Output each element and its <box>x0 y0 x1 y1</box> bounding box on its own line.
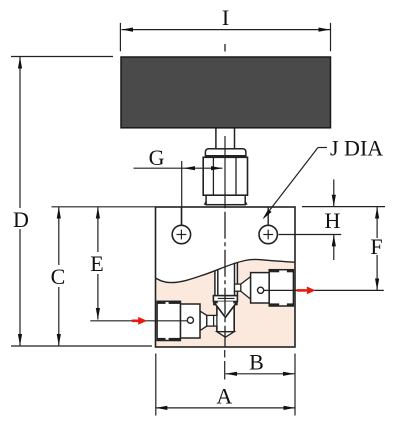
needle cone <box>215 303 236 317</box>
dimension B centerline tick <box>224 350 226 358</box>
left mounting hole drill line <box>180 207 182 225</box>
dimension H bottom arrow <box>333 235 335 260</box>
dimension G line <box>134 167 223 169</box>
red flow arrow left (inlet) <box>132 319 140 322</box>
dimension I arrow right <box>319 28 331 32</box>
dimension D arrow top <box>18 57 22 69</box>
centerline (dash-dot) <box>224 44 226 52</box>
stem bore outer left wall <box>214 271 216 296</box>
left port threaded section <box>157 301 180 340</box>
bonnet skirt <box>206 195 245 205</box>
handle (T-bar) <box>121 57 331 128</box>
dimension I extension line right <box>330 23 332 51</box>
svg-text:E: E <box>90 251 103 276</box>
dimension B arrow left <box>226 372 238 376</box>
body-bottom extension line left (for D and C) <box>11 345 152 347</box>
left port channel step line <box>213 315 215 326</box>
needle shoulder band <box>213 296 237 302</box>
dimension C arrow bottom <box>57 334 61 346</box>
svg-text:H: H <box>325 208 341 233</box>
svg-text:I: I <box>222 5 229 30</box>
svg-text:J DIA: J DIA <box>330 136 383 161</box>
dimension B line <box>226 373 295 375</box>
dimension D line <box>19 57 21 208</box>
A left extension line <box>155 354 157 416</box>
A/B right extension line <box>294 354 296 416</box>
svg-text:A: A <box>216 384 232 409</box>
dimension F arrow top <box>375 207 379 219</box>
dimension E line <box>97 207 99 252</box>
dimension E arrow top <box>96 207 100 219</box>
band corner blob left <box>213 302 217 305</box>
centerline through stem and bonnet <box>224 136 226 207</box>
right port axis line <box>258 289 384 291</box>
red flow arrow right (outlet) <box>297 289 307 292</box>
J DIA leader line <box>318 147 327 149</box>
dimension C line <box>58 207 60 265</box>
left port channel <box>207 315 217 326</box>
dimension B arrow right <box>283 372 295 376</box>
seat walls white block <box>217 302 234 332</box>
seat left wall (broken at inlet channel) <box>216 302 218 316</box>
dimension G arrow right <box>211 166 223 170</box>
hole-axis extension line right (for H) <box>279 234 342 236</box>
left port thread bars top <box>158 301 166 304</box>
right port center circle <box>258 287 264 293</box>
right port channel top line <box>235 283 241 285</box>
skirt left flare <box>204 200 206 205</box>
left port outlet flare <box>200 311 207 331</box>
bonnet hex nut <box>203 157 247 195</box>
right port thread bars bottom <box>269 303 279 306</box>
dimension I extension line left <box>119 23 121 51</box>
seat bottom line <box>217 331 234 333</box>
dimension G arrow left <box>184 166 196 170</box>
dimension A arrow right <box>284 406 296 410</box>
body-top extension line left (for C and E) <box>52 206 156 208</box>
dimension I arrow left <box>122 28 134 32</box>
left mounting hole <box>172 225 190 243</box>
dimension F arrow bottom <box>375 279 379 291</box>
stem right wall <box>234 263 236 296</box>
hex flat line right <box>235 157 237 195</box>
dimension C arrow top <box>57 207 61 219</box>
section break wavy line <box>156 259 296 282</box>
body-top extension line right (for H and F) <box>302 206 385 208</box>
stem <box>216 128 235 149</box>
svg-text:G: G <box>149 145 165 170</box>
svg-text:F: F <box>370 234 382 259</box>
right mounting hole <box>259 225 277 243</box>
right port inlet flare <box>241 277 251 300</box>
left port thread bars bottom <box>158 338 166 341</box>
stem bore white channel <box>215 259 238 296</box>
left port axis line <box>90 320 193 322</box>
band corner blob right <box>233 302 237 305</box>
dimension A line <box>156 407 295 409</box>
right port thread bars top <box>269 270 279 273</box>
dimension G extension tick <box>181 161 183 225</box>
right port bore <box>251 273 270 303</box>
handle-top extension line (for D) <box>11 56 113 58</box>
dimension H top arrow <box>333 179 335 206</box>
right port channel bottom line <box>235 290 241 292</box>
stem left wall <box>217 269 219 295</box>
right mounting hole drill line <box>267 207 269 225</box>
J DIA leader arrowhead <box>263 209 272 219</box>
skirt right flare <box>245 200 247 205</box>
dimension D arrow bottom <box>18 334 22 346</box>
valve body outline <box>156 207 296 347</box>
drill point below seat <box>217 332 234 338</box>
shoulder band mid line <box>218 297 235 299</box>
right port connecting channel <box>235 284 241 291</box>
dimension F line <box>376 207 378 238</box>
tan cross-section region of valve body <box>156 259 296 347</box>
seat right wall <box>233 302 235 332</box>
svg-text:D: D <box>13 207 29 232</box>
svg-text:B: B <box>249 350 264 375</box>
right port threaded section <box>269 270 293 306</box>
left port center circle <box>187 317 193 323</box>
hex flat line left <box>212 157 214 195</box>
left port bore <box>180 304 200 338</box>
dimension I line <box>122 29 331 31</box>
stem bore outer right wall (broken at channel) <box>236 262 238 284</box>
dimension A arrow left <box>156 406 168 410</box>
dimension E arrow bottom <box>96 308 100 320</box>
packing nut cap <box>205 149 246 156</box>
svg-text:C: C <box>51 264 66 289</box>
